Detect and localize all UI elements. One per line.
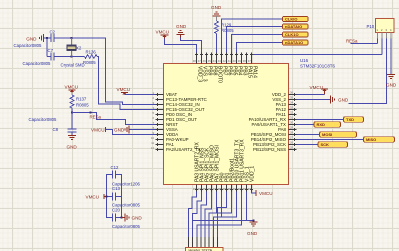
- svg-text:Capacitor0805: Capacitor0805: [112, 224, 141, 229]
- svg-text:44: 44: [213, 59, 216, 63]
- wire PA14: [251, 53, 253, 55]
- svg-text:14: 14: [198, 187, 201, 191]
- svg-text:VMCU: VMCU: [86, 195, 100, 200]
- svg-text:GND: GND: [26, 37, 37, 42]
- svg-text:38: 38: [243, 59, 246, 63]
- svg-text:CLKIO: CLKIO: [285, 16, 297, 21]
- wire: [54, 56, 72, 58]
- svg-text:22: 22: [238, 187, 241, 191]
- svg-text:13: 13: [193, 187, 196, 191]
- svg-text:VMCU: VMCU: [117, 87, 131, 92]
- pin 20 PB2/Boot1: [231, 185, 233, 192]
- svg-text:36: 36: [290, 91, 293, 95]
- pin 39 PB3: [241, 53, 243, 64]
- pin 22 PB11 USART3_RX: [241, 185, 243, 192]
- pin 44 BOOT0: [216, 53, 218, 64]
- node: [70, 37, 72, 39]
- wire PB1: [218, 192, 227, 238]
- pin 31 PA10/USART1_RX: [289, 119, 297, 121]
- port TXD: [344, 117, 364, 123]
- svg-text:43: 43: [218, 59, 221, 63]
- svg-text:GND: GND: [67, 145, 78, 150]
- pin 37 PA14: [251, 53, 253, 64]
- svg-text:34: 34: [290, 101, 293, 105]
- svg-text:nDATA1O: nDATA1O: [285, 40, 303, 45]
- svg-text:Capacitor0805: Capacitor0805: [14, 43, 43, 48]
- pin 33 PA12: [289, 109, 297, 111]
- pin 41 PB5: [231, 53, 233, 64]
- svg-text:GND: GND: [386, 83, 397, 88]
- wire PB2: [218, 192, 232, 214]
- svg-text:GND: GND: [132, 216, 143, 221]
- pin 34 PA13: [289, 104, 297, 106]
- svg-text:VMCU: VMCU: [91, 128, 105, 133]
- wire TXD: [297, 119, 344, 121]
- port CLK1: [283, 17, 309, 22]
- pin 19 PB1: [226, 185, 228, 192]
- pin 1 VBAT: [156, 94, 164, 96]
- svg-text:29: 29: [290, 126, 293, 130]
- pin 7 NRST: [156, 124, 164, 126]
- wire: [349, 39, 387, 104]
- wire PB0: [214, 192, 222, 238]
- wire PB4 to port: [237, 43, 283, 53]
- wire VSS_1 GND spine: [246, 192, 248, 221]
- ground: [68, 135, 76, 137]
- pin stub: [377, 33, 379, 39]
- pin stub: [381, 33, 383, 39]
- svg-text:35: 35: [290, 96, 293, 100]
- svg-text:10: 10: [151, 136, 154, 140]
- pin 18 PB0: [221, 185, 223, 192]
- pin 38 PA15: [246, 53, 248, 64]
- wire PB6 to port: [227, 27, 283, 53]
- svg-text:VDD_1: VDD_1: [249, 166, 255, 182]
- pin 23 VSS_1: [246, 185, 248, 192]
- pin 25 PB12/SPI2_NSS: [289, 149, 297, 151]
- svg-text:MISO: MISO: [366, 137, 376, 142]
- wire left rail: [107, 175, 113, 218]
- svg-text:27: 27: [290, 136, 293, 140]
- node: [252, 219, 254, 221]
- svg-text:42: 42: [223, 59, 226, 63]
- node: [89, 111, 91, 113]
- pin 10 PA0-WKUP: [156, 139, 164, 141]
- wire PA7: [209, 192, 217, 238]
- svg-text:12: 12: [151, 146, 154, 150]
- svg-text:R136: R136: [86, 50, 97, 55]
- svg-text:23: 23: [243, 187, 246, 191]
- svg-text:GND: GND: [247, 231, 258, 236]
- pin 9 VDDA: [156, 134, 164, 136]
- port MOSI: [320, 132, 357, 138]
- svg-text:20: 20: [228, 187, 231, 191]
- op-amp U16 body: [164, 64, 289, 185]
- wire: [192, 221, 194, 238]
- svg-text:19: 19: [223, 187, 226, 191]
- wire RESa to NRST: [72, 113, 156, 125]
- wire RXD: [297, 124, 315, 126]
- pin 6 PD1 OSC_OUT: [156, 119, 164, 121]
- node: C2 left junction: [46, 37, 48, 39]
- power VMCU to VDD_1: [252, 192, 256, 194]
- svg-text:Crystal SMD: Crystal SMD: [61, 63, 85, 68]
- port MISO: [364, 137, 395, 143]
- svg-text:C7: C7: [48, 48, 54, 53]
- ground: [250, 221, 258, 223]
- pin 27 PB14/SPI2_MISO: [289, 139, 297, 141]
- pin 30 PA9/USART1_TX: [289, 124, 297, 126]
- port RXD: [314, 122, 341, 128]
- pin 11 PA1: [156, 144, 164, 146]
- svg-text:40: 40: [233, 59, 236, 63]
- node: [70, 55, 72, 57]
- svg-text:31: 31: [290, 116, 293, 120]
- pin 36 VDD_2: [289, 94, 297, 96]
- svg-text:R0805: R0805: [76, 103, 89, 108]
- power GND: [120, 216, 122, 218]
- svg-text:GND: GND: [176, 24, 187, 29]
- svg-text:VMCU: VMCU: [156, 30, 170, 35]
- wire: [44, 37, 51, 39]
- pin 21 PB10 USART3_TX: [236, 185, 238, 192]
- wire PA5: [201, 192, 207, 238]
- svg-text:41: 41: [228, 59, 231, 63]
- pin stub: [390, 33, 392, 39]
- wire: [54, 37, 72, 39]
- port DATA2: [283, 40, 309, 45]
- svg-text:37: 37: [248, 59, 251, 63]
- svg-text:33: 33: [290, 106, 293, 110]
- svg-text:SCK: SCK: [321, 142, 330, 147]
- svg-text:C13: C13: [112, 186, 120, 191]
- wire PB11: [197, 192, 242, 238]
- wire PB7 to port: [222, 19, 283, 53]
- node: [71, 111, 73, 113]
- pin 40 PB4: [236, 53, 238, 64]
- wire PB10: [214, 192, 237, 218]
- svg-text:CLK1O: CLK1O: [285, 32, 299, 37]
- pin 45 PB8: [211, 53, 213, 64]
- svg-text:C20: C20: [112, 208, 120, 213]
- wire PA3: [189, 192, 197, 238]
- wire: [71, 108, 73, 113]
- header P11 pins: [188, 237, 190, 248]
- svg-text:VMCU: VMCU: [259, 191, 273, 196]
- svg-text:RESa: RESa: [346, 39, 358, 44]
- pin 14 PA4 SPI1_NSS: [201, 185, 203, 192]
- pin 17 PA7 SPI1_MOSI: [216, 185, 218, 192]
- svg-text:28: 28: [290, 131, 293, 135]
- pin 28 PB15/SPI2_MOSI: [289, 134, 297, 136]
- pin stub: [386, 33, 388, 39]
- wire PA4: [193, 192, 202, 238]
- svg-text:46: 46: [203, 59, 206, 63]
- svg-text:45: 45: [208, 59, 211, 63]
- wire RESa net: [377, 39, 379, 44]
- svg-text:RESa: RESa: [90, 115, 102, 120]
- node: [105, 195, 107, 197]
- pin 43 PB7: [221, 53, 223, 64]
- header P11 body: [186, 248, 224, 251]
- pin 35 VSS_2: [289, 99, 297, 101]
- wire net OSC-B: [97, 57, 156, 110]
- svg-text:Capacitor0805: Capacitor0805: [23, 61, 52, 66]
- svg-text:C8: C8: [53, 127, 59, 132]
- wire PA6: [205, 192, 212, 238]
- svg-text:nDATAIO: nDATAIO: [285, 24, 302, 29]
- pin 46 PB9: [206, 53, 208, 64]
- svg-text:16: 16: [208, 187, 211, 191]
- pin 47 VSS_3: [201, 53, 203, 64]
- pin 13 PA3 USART2_RX: [196, 185, 198, 192]
- svg-text:Capacitor0805: Capacitor0805: [29, 117, 58, 122]
- wire MISO: [297, 139, 364, 141]
- ground: [390, 39, 392, 75]
- svg-text:15: 15: [203, 187, 206, 191]
- wire SCK: [297, 144, 319, 146]
- svg-text:25: 25: [290, 146, 293, 150]
- wire right rail: [116, 175, 122, 218]
- svg-text:26: 26: [290, 141, 293, 145]
- svg-text:17: 17: [213, 187, 216, 191]
- port SCK: [318, 142, 348, 148]
- svg-text:STM32F101C8T6: STM32F101C8T6: [300, 64, 335, 69]
- pin 2 PC13-TAMPER-RTC: [156, 99, 164, 101]
- pin 4 PC15-OSC32_OUT: [156, 109, 164, 111]
- svg-text:C12: C12: [111, 165, 119, 170]
- svg-text:RXD: RXD: [317, 122, 326, 127]
- svg-text:18: 18: [218, 187, 221, 191]
- svg-text:30: 30: [290, 121, 293, 125]
- pin 42 PB6: [226, 53, 228, 64]
- power GND to VSS_2: [297, 99, 331, 101]
- wire: [46, 38, 48, 57]
- svg-text:21: 21: [233, 187, 236, 191]
- svg-text:R0805: R0805: [221, 28, 234, 33]
- crystal X2: [71, 38, 73, 45]
- svg-text:32: 32: [290, 111, 293, 115]
- pin 26 PB13/SPI2_SCK: [289, 144, 297, 146]
- pin 48 VDD_3: [196, 53, 198, 64]
- pin 5 PD0 OSC_IN: [156, 114, 164, 116]
- svg-text:TXD: TXD: [346, 117, 354, 122]
- pin 15 PA5 SPI1_SCK: [206, 185, 208, 192]
- pin 3 PC14-OSC32_IN: [156, 104, 164, 106]
- pin 32 PA11: [289, 114, 297, 116]
- svg-text:X2: X2: [76, 46, 82, 51]
- svg-text:P10: P10: [367, 24, 375, 29]
- wire PB5 to port: [232, 35, 283, 53]
- wire: [381, 39, 383, 55]
- pin 29 PA8: [289, 129, 297, 131]
- svg-text:GND: GND: [211, 5, 222, 10]
- pin 16 PA6 SPI1_MISO: [211, 185, 213, 192]
- svg-text:24: 24: [248, 187, 251, 191]
- svg-text:39: 39: [238, 59, 241, 63]
- pin 8 VSSA: [156, 129, 164, 131]
- svg-text:PB12/SPI2_NSS: PB12/SPI2_NSS: [253, 147, 286, 152]
- wire MOSI: [297, 134, 320, 136]
- svg-text:U16: U16: [300, 58, 309, 63]
- svg-text:GND: GND: [338, 98, 349, 103]
- port DATA1: [283, 24, 309, 29]
- svg-text:47: 47: [198, 59, 201, 63]
- svg-text:R0805: R0805: [83, 60, 96, 65]
- svg-text:R137: R137: [76, 97, 87, 102]
- svg-text:VMCU: VMCU: [65, 85, 79, 90]
- svg-text:GND: GND: [114, 128, 125, 133]
- svg-text:48: 48: [193, 59, 196, 63]
- svg-text:C2: C2: [50, 30, 56, 35]
- pin 12 PA2/USART2_TX: [156, 149, 164, 151]
- wire net OSC-A: [72, 38, 156, 105]
- svg-text:MOSI: MOSI: [322, 132, 332, 137]
- svg-text:PA14: PA14: [251, 66, 257, 78]
- port CLK2: [283, 32, 309, 37]
- pin 24 VDD_1: [251, 185, 253, 192]
